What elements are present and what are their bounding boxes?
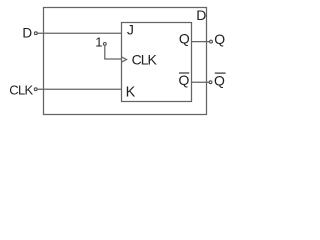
svg-text:J: J [127, 22, 134, 38]
outer block: D flip-flop boundary [44, 8, 207, 115]
svg-text:Q: Q [179, 31, 190, 47]
input CLK terminal circle [34, 88, 37, 91]
svg-text:Q: Q [214, 31, 225, 47]
wire D to J input [38, 32, 122, 34]
svg-text:Q: Q [214, 72, 225, 88]
input D terminal circle [34, 32, 37, 35]
output Q-bar terminal circle [209, 81, 212, 84]
inner block: JK flip-flop [122, 23, 192, 102]
input D label [22, 25, 32, 40]
pin label Q (inner) [179, 31, 190, 47]
constant 1 label [95, 35, 102, 50]
output Q-bar label [214, 72, 226, 88]
clock edge triangle [122, 57, 127, 62]
svg-text:D: D [196, 7, 206, 23]
svg-text:Q: Q [179, 72, 190, 88]
pin label CLK (inner clock input) [132, 52, 158, 68]
svg-text:K: K [126, 85, 136, 101]
label D (outer block name) [196, 7, 206, 23]
output Q label [214, 31, 225, 47]
pin label J [127, 22, 134, 38]
wire Q output [192, 41, 210, 43]
wire Q-bar output [192, 81, 209, 83]
svg-text:D: D [22, 25, 32, 40]
svg-text:1: 1 [95, 35, 102, 50]
pin label Q-bar (inner) [179, 72, 190, 88]
svg-text:CLK: CLK [132, 52, 158, 68]
pin label K [126, 85, 136, 101]
output Q terminal circle [210, 40, 213, 43]
svg-text:CLK: CLK [9, 82, 33, 97]
wire 1 to clock edge input [105, 46, 122, 59]
wire CLK to K input [38, 88, 122, 90]
node 1 terminal circle [103, 43, 106, 46]
input CLK label [9, 82, 33, 97]
